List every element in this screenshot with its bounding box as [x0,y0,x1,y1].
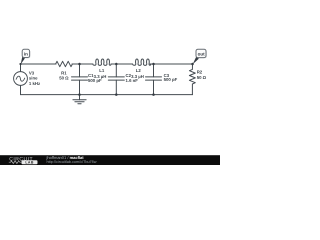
svg-text:in: in [24,52,28,57]
svg-text:out: out [198,52,205,57]
svg-text:http://circuitlab.com/c/7bu76w: http://circuitlab.com/c/7bu76w [47,160,97,164]
svg-text:3.3 µH: 3.3 µH [94,74,107,79]
junction node 3 top [152,63,155,66]
voltage source V3 [14,72,28,86]
svg-text:1 kHz: 1 kHz [29,81,40,86]
label R2 [197,70,207,80]
label L2 [131,68,144,79]
wire V3 top lead [20,64,22,72]
footer logo CIRCUIT LAB [9,156,38,164]
label C1 [88,73,102,83]
footer credit text [46,155,97,164]
wire top rail segment 4 [150,63,193,65]
junction node 2 top [115,63,118,66]
node out flag [193,49,207,64]
label L1 [94,68,107,79]
svg-text:LAB: LAB [25,161,33,165]
inductor L2 [133,59,151,65]
wire top rail segment 1 [21,63,57,65]
junction node 1 top [78,63,81,66]
label V3 [29,70,40,86]
junction bottom C1 [78,93,81,96]
label C3 [164,73,178,82]
svg-text:50 Ω: 50 Ω [59,75,69,80]
wire V3 bottom lead [20,86,22,95]
node in flag [21,49,31,64]
svg-text:sine: sine [29,76,38,81]
svg-text:500 pF: 500 pF [164,77,178,82]
capacitor C3 [146,64,162,95]
footer watermark bar [0,155,220,165]
svg-text:50 Ω: 50 Ω [197,75,207,80]
svg-text:3.3 µH: 3.3 µH [131,74,144,79]
junction node in [19,63,21,65]
label R1 [59,71,69,81]
junction node out [191,63,194,66]
svg-text:L2: L2 [136,68,142,73]
junction bottom C2 [115,93,118,96]
svg-text:V3: V3 [29,70,35,75]
wire bottom rail [21,94,193,96]
inductor L1 [93,59,111,65]
capacitor C1 [72,64,88,95]
junction bottom C3 [152,93,155,96]
wire top rail segment 3 [111,63,133,65]
svg-text:L1: L1 [99,68,105,73]
wire top rail segment 2 [72,63,93,65]
resistor R2 [189,64,195,95]
resistor R1 [56,61,73,66]
svg-text:R2: R2 [197,70,203,75]
label C2 [126,73,139,83]
capacitor C2 [108,64,124,95]
ground [73,95,86,104]
